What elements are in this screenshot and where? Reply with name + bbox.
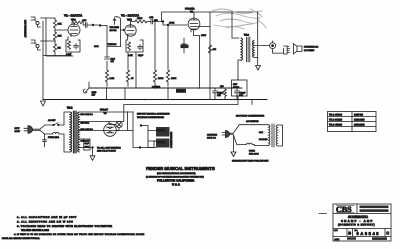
svg-text:VOLTAGE CONNECTIONS: VOLTAGE CONNECTIONS — [137, 116, 165, 119]
ground switch — [83, 82, 97, 97]
notes — [2, 216, 145, 240]
svg-text:230VAC: 230VAC — [157, 129, 166, 132]
wire OT secondary bottom to ground — [254, 58, 258, 66]
tube V3 rectifier — [104, 124, 117, 137]
svg-text:EXPORT MODELS ALTERNATE: EXPORT MODELS ALTERNATE — [137, 113, 170, 116]
svg-text:NOTE: ALL VALUES SHOWN TYPICAL: NOTE: ALL VALUES SHOWN TYPICAL — [2, 237, 41, 240]
resistor 100K plate — [135, 17, 149, 23]
cathode network V1B — [126, 37, 144, 88]
bottom row — [347, 237, 356, 239]
svg-text:100K: 100K — [137, 17, 143, 20]
wire V3 cathode out — [116, 112, 133, 131]
input jack J1 — [31, 17, 41, 27]
export ground — [231, 136, 236, 157]
wire V3 plate loop — [109, 112, 124, 124]
svg-text:BLK-RED: BLK-RED — [259, 138, 268, 141]
cathode network V1A — [66, 37, 80, 57]
wire OT secondary top to jack — [254, 44, 270, 46]
resistor 470 screen — [208, 45, 217, 53]
svg-text:AND PILOT LIGHT: AND PILOT LIGHT — [97, 150, 117, 153]
resistor 470 V2 cathode — [220, 85, 226, 100]
tube V2 6V6 — [188, 18, 200, 32]
wire jack tips to grid rail — [41, 18, 47, 41]
wire to volume — [100, 25, 107, 27]
potentiometer VOLUME — [110, 17, 121, 47]
filter cap box — [84, 139, 90, 150]
svg-text:1.5K: 1.5K — [110, 77, 115, 80]
svg-text:V1B: V1B — [127, 19, 132, 22]
wire OT primary bottom — [238, 60, 241, 80]
speaker return box — [232, 80, 248, 97]
node bus dots — [106, 87, 236, 100]
svg-text:1M PT.2: 1M PT.2 — [110, 29, 117, 32]
svg-text:FENDER MUSICAL INSTRUMENTS: FENDER MUSICAL INSTRUMENTS — [146, 166, 215, 171]
resistor 1.5K to bus — [105, 64, 114, 87]
export taps diagram — [140, 125, 173, 148]
pilot light — [102, 121, 122, 130]
svg-text:25μF: 25μF — [138, 54, 144, 57]
svg-text:TR 2: TR 2 — [244, 34, 250, 37]
input jack J2 — [31, 40, 41, 50]
capacitor .022 — [82, 19, 93, 28]
node volume input — [99, 25, 101, 27]
wire jack loop to plug — [273, 48, 284, 53]
number row — [347, 229, 385, 237]
fuse — [48, 132, 59, 139]
wire V2 cathode — [194, 31, 200, 89]
AC plug 117V — [15, 126, 41, 134]
svg-text:125A35B: 125A35B — [354, 119, 365, 122]
svg-text:450V: 450V — [85, 146, 90, 149]
export switch wiring — [233, 125, 253, 145]
wire AC neutral to fuse — [40, 130, 53, 134]
wire fuse to primary bottom — [59, 134, 70, 152]
wire heater continues — [140, 141, 168, 148]
svg-text:TR 2 66225: TR 2 66225 — [329, 119, 343, 122]
svg-text:RED 325V AC: RED 325V AC — [81, 113, 94, 116]
svg-text:470K: 470K — [169, 22, 175, 25]
svg-text:TR 1 66988: TR 1 66988 — [329, 114, 343, 117]
potentiometer TREBLE — [94, 26, 121, 58]
speaker jack — [270, 41, 276, 49]
ground TR1 — [90, 148, 95, 161]
wire AC hot to switch — [40, 125, 54, 129]
label stamp blob — [176, 89, 186, 93]
switch AC — [48, 119, 64, 126]
svg-text:V1 - 12AX7A: V1 - 12AX7A — [121, 14, 140, 18]
tube V1B — [125, 25, 136, 38]
wire ground rail from jacks — [42, 21, 44, 100]
resistor 1M — [53, 42, 60, 56]
wire input network frame — [46, 18, 73, 56]
resistor 100K plate V1A — [72, 21, 85, 25]
svg-text:125P1B: 125P1B — [354, 114, 363, 117]
svg-text:(DIV. FENDER MUSICAL INSTRUMEN: (DIV. FENDER MUSICAL INSTRUMENTS) — [157, 172, 196, 175]
svg-text:(DOMESTIC & EXPORT): (DOMESTIC & EXPORT) — [338, 224, 375, 227]
svg-text:CAUTION: CAUTION — [207, 134, 217, 137]
capacitor line cap — [43, 134, 47, 147]
wire riser to bus — [251, 100, 253, 105]
svg-text:NOTE: NOTE — [177, 90, 184, 93]
transformer TR1 power — [67, 107, 79, 154]
svg-text:VOLUME: VOLUME — [110, 26, 120, 29]
transformer TR2 output — [241, 34, 254, 63]
B+ rail top — [162, 12, 258, 22]
svg-text:TR 3 45216: TR 3 45216 — [329, 124, 343, 127]
tube V1A — [68, 24, 80, 37]
svg-text:4. IF UNIT IS TO BE OPERATED: 4. IF UNIT IS TO BE OPERATED ON OTHER TH… — [14, 233, 145, 236]
svg-text:TREBLE: TREBLE — [108, 43, 117, 46]
wire B plus right drop — [257, 12, 259, 58]
svg-text:100K: 100K — [158, 77, 164, 80]
company bars — [360, 206, 389, 209]
speaker plug — [284, 46, 290, 54]
svg-text:AC SW: AC SW — [48, 119, 56, 122]
svg-text:FUSE: FUSE — [249, 150, 255, 153]
resistor 68K lower — [53, 30, 62, 42]
svg-text:1. ALL CAPACITORS ARE IN μF 6: 1. ALL CAPACITORS ARE IN μF 600V — [17, 216, 77, 219]
ground arrow input — [41, 101, 46, 106]
capacitor .022 second — [149, 16, 163, 24]
svg-text:EXT: EXT — [233, 83, 238, 86]
svg-text:CHASSIS NOT USED FOR EXPORT: CHASSIS NOT USED FOR EXPORT — [232, 160, 269, 163]
wire cathode to ground rail — [43, 55, 71, 57]
svg-text:RED-BLK: RED-BLK — [81, 122, 90, 125]
wire screen grid — [198, 26, 210, 28]
svg-text:INSTRUMENT: INSTRUMENT — [24, 20, 27, 38]
svg-text:V1 - 12AX7A: V1 - 12AX7A — [64, 14, 83, 18]
wire to volume — [93, 24, 100, 26]
capacitor 25uF 50V — [235, 88, 247, 100]
svg-text:AC SWITCH: AC SWITCH — [246, 120, 259, 123]
svg-text:68K: 68K — [58, 23, 62, 26]
wire volume to V1B grid — [121, 29, 125, 31]
wire V1A plate to coupling cap — [71, 23, 73, 25]
node heater junction — [92, 147, 94, 149]
resistor 47 to bus — [126, 52, 134, 87]
wire switch to primary top — [64, 112, 70, 125]
resistor 68K upper — [53, 18, 62, 30]
capacitor 25uF 25V — [105, 57, 116, 64]
svg-text:DATE: DATE — [335, 238, 341, 241]
svg-text:BLK: BLK — [259, 131, 264, 134]
node grid V2 — [167, 24, 169, 26]
wire junction drop — [163, 22, 187, 26]
svg-text:3. VOLTAGES READ TO GROUND WI: 3. VOLTAGES READ TO GROUND WITH ELECTRON… — [17, 225, 112, 228]
svg-text:SPEAKER 4Ω: SPEAKER 4Ω — [304, 46, 318, 49]
resistor 100K to bus — [153, 22, 163, 87]
svg-text:220K: 220K — [171, 77, 177, 80]
wire grid to V1A — [55, 29, 68, 31]
svg-text:V1A: V1A — [71, 19, 76, 22]
ground bus lower — [43, 99, 267, 101]
capacitor 25uF V2 cathode — [213, 88, 225, 100]
speaker horn — [294, 44, 303, 54]
svg-text:C: C — [386, 231, 389, 236]
wire V1B plate rail — [131, 22, 136, 25]
node junction — [162, 21, 164, 23]
svg-text:220VAC: 220VAC — [157, 141, 166, 144]
svg-text:117V: 117V — [15, 127, 21, 130]
svg-text:B: B — [348, 231, 351, 236]
svg-text:1.5K: 1.5K — [128, 54, 133, 57]
svg-text:25V: 25V — [217, 94, 221, 97]
export fuse — [246, 143, 259, 155]
ground bus upper — [89, 87, 242, 89]
stray mark left of title block — [319, 213, 327, 215]
wire B plus riser — [133, 112, 140, 148]
svg-text:68K: 68K — [58, 35, 62, 38]
wire HT secondary top — [79, 111, 133, 113]
svg-text:CONNECTIONS: CONNECTIONS — [170, 131, 173, 148]
svg-text:120V AC: 120V AC — [207, 137, 216, 140]
svg-text:CHAMP - AMP: CHAMP - AMP — [341, 219, 374, 223]
pencil mark scribbles — [212, 9, 266, 29]
company name block — [146, 166, 215, 187]
svg-text:60CY: 60CY — [15, 130, 21, 133]
wire heater line — [80, 147, 93, 149]
node heater dot — [139, 147, 141, 149]
wire bus tie 3 — [167, 88, 169, 100]
wire B plus top run — [124, 96, 238, 112]
resistor 220K to bus — [166, 25, 176, 87]
svg-text:TR 1: TR 1 — [67, 107, 73, 110]
svg-text:234 VOLTS CONNECTIONS: 234 VOLTS CONNECTIONS — [236, 115, 265, 118]
svg-text:3.2 OHMS: 3.2 OHMS — [304, 49, 315, 52]
wire bus tie 1 — [106, 88, 108, 100]
wire secondary taps — [79, 122, 109, 148]
svg-text:125A10B: 125A10B — [354, 124, 365, 127]
svg-text:0A9545: 0A9545 — [357, 231, 381, 236]
capacitor .1 near V2 — [181, 38, 189, 53]
svg-text:1/2A 3AG: 1/2A 3AG — [249, 152, 259, 155]
title block — [333, 204, 391, 241]
node plate junction — [92, 24, 94, 26]
svg-text:SPKR: SPKR — [233, 86, 239, 89]
svg-text:470K: 470K — [94, 45, 99, 48]
export transformer primary — [253, 124, 282, 147]
wire bus tie 2 — [124, 88, 126, 100]
svg-text:450V: 450V — [201, 34, 207, 37]
svg-text:1M: 1M — [58, 47, 61, 50]
export AC plug — [207, 131, 233, 140]
svg-text:50V: 50V — [239, 94, 243, 97]
svg-text:TO ALL 6.3V HEATERS: TO ALL 6.3V HEATERS — [97, 147, 121, 150]
svg-text:2. ALL RESISTORS ARE 1/2 W 10: 2. ALL RESISTORS ARE 1/2 W 10% — [17, 220, 74, 223]
wire screen dropper — [209, 12, 211, 100]
wire OT primary feed — [232, 12, 239, 38]
svg-text:FUSE 1/2A: FUSE 1/2A — [48, 136, 59, 139]
parts table — [328, 112, 377, 132]
svg-text:VALUES SHOWN ± 20%: VALUES SHOWN ± 20% — [21, 229, 50, 232]
ground OT — [256, 66, 261, 71]
svg-text:U S A: U S A — [172, 183, 181, 187]
